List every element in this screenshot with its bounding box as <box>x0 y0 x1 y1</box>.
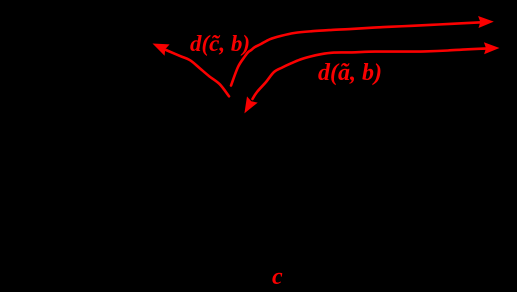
curve d(a-tilde,b): shaft <box>253 48 491 99</box>
curve d(a-tilde,b): right head <box>484 42 500 54</box>
arrow d(c-tilde,b): head <box>153 44 170 56</box>
curve d(a-tilde,b): down-left head at cusp <box>244 96 257 113</box>
arrow d(c-tilde,b) up-left: shaft <box>166 50 229 96</box>
long curve to c-tilde at right: shaft <box>231 22 484 85</box>
label d(a-tilde, b) <box>318 60 382 87</box>
label c <box>272 264 283 291</box>
label d(c-tilde, b) <box>190 31 250 57</box>
long curve to c-tilde: right head <box>478 16 494 28</box>
